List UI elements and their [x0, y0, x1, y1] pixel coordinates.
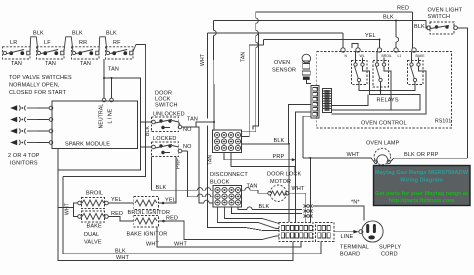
- wire switch to right edge: [457, 28, 467, 158]
- svg-text:SENSOR: SENSOR: [272, 68, 296, 74]
- svg-text:YEL: YEL: [365, 33, 376, 39]
- oven light switch: [414, 22, 457, 34]
- relay 1: [352, 52, 368, 85]
- svg-text:NO: NO: [183, 127, 192, 133]
- valve left bracket WHT: [58, 203, 78, 217]
- svg-text:2 OR 4 TOP: 2 OR 4 TOP: [8, 153, 40, 159]
- terminal neutral: [102, 98, 106, 102]
- oven light switch label: [428, 8, 463, 21]
- terminal T1: [341, 48, 348, 58]
- supply cord label: [379, 245, 401, 258]
- svg-text:BAKE: BAKE: [87, 224, 102, 230]
- wire from RF right to door lock area: [133, 45, 146, 123]
- relay 2: [373, 52, 389, 87]
- wire loop inner: [63, 122, 321, 254]
- svg-text:BLK: BLK: [274, 138, 285, 144]
- wire YEL right junction up: [158, 157, 176, 205]
- svg-text:L I NE: L I NE: [108, 108, 114, 123]
- wire BLK left of DLS: [141, 122, 152, 147]
- wire vertical x249 TAN: [241, 40, 264, 135]
- svg-text:*N*: *N*: [351, 200, 360, 206]
- ignitor 3: [10, 128, 53, 133]
- svg-text:LF: LF: [44, 40, 51, 46]
- terminal board box 2: [316, 223, 335, 242]
- svg-text:RED: RED: [166, 216, 178, 222]
- oven lamp: [374, 148, 390, 164]
- svg-text:NORMALLY OPEN,: NORMALLY OPEN,: [9, 83, 60, 89]
- switch LF: [37, 40, 65, 67]
- wire BLK lower block bottom to bundle: [232, 204, 303, 213]
- svg-text:TAN: TAN: [45, 61, 56, 67]
- svg-text:NO: NO: [183, 144, 192, 150]
- svg-text:BLK OR PRP: BLK OR PRP: [404, 152, 439, 158]
- oven control dashed box: [317, 52, 452, 129]
- bake valve coil: [78, 211, 109, 222]
- svg-text:TAN: TAN: [187, 117, 198, 123]
- wire T2 stub: [352, 44, 358, 48]
- broil valve coil: [78, 198, 109, 209]
- svg-text:TAN: TAN: [247, 184, 258, 190]
- svg-text:BLK: BLK: [383, 15, 394, 21]
- bake ignitor: [127, 216, 168, 238]
- switch RF: [106, 40, 134, 59]
- svg-text:WHT: WHT: [116, 255, 129, 261]
- svg-text:LR: LR: [10, 40, 17, 46]
- terminal T3: [377, 48, 391, 58]
- svg-text:BLK: BLK: [414, 24, 425, 30]
- svg-text:TAN: TAN: [11, 61, 22, 67]
- svg-text:TOP VALVE SWITCHES: TOP VALVE SWITCHES: [9, 75, 72, 81]
- svg-text:WHT: WHT: [146, 242, 159, 248]
- wire TAN from unlocked NO: [182, 117, 215, 128]
- supply cord plug: [359, 221, 383, 242]
- wire WHT lamp left: [303, 152, 374, 162]
- wire RED bus: [256, 6, 413, 49]
- svg-text:SUPPLY: SUPPLY: [379, 245, 401, 251]
- wire into lower block row1 with bumps: [152, 157, 213, 191]
- relay 3: [408, 52, 424, 85]
- svg-text:BLK: BLK: [33, 31, 44, 37]
- twisted wire bundle: [289, 157, 313, 222]
- spark module box: [52, 101, 138, 149]
- svg-text:DUAL: DUAL: [84, 232, 99, 238]
- wire vertical x258.5: [253, 33, 259, 130]
- wire T4 to BLK bus: [395, 20, 399, 48]
- svg-text:OVEN LIGHT: OVEN LIGHT: [428, 8, 463, 14]
- svg-text:SWITCH: SWITCH: [428, 14, 451, 20]
- svg-text:TAN: TAN: [108, 67, 119, 73]
- svg-text:TAN: TAN: [80, 61, 91, 67]
- sensor edge connector hatched: [323, 89, 332, 113]
- svg-text:L1: L1: [398, 54, 402, 58]
- svg-text:WHT: WHT: [292, 186, 305, 192]
- wire BLK link LR-LF: [30, 31, 44, 53]
- terminal board label: [340, 245, 369, 258]
- svg-text:CORD: CORD: [381, 252, 398, 258]
- svg-text:CLOSED FOR START: CLOSED FOR START: [9, 90, 67, 96]
- svg-text:PRP: PRP: [273, 154, 285, 160]
- svg-text:WHT: WHT: [65, 203, 71, 215]
- upper connector block: [213, 130, 242, 153]
- svg-text:BLK: BLK: [106, 31, 117, 37]
- wire neutral/line up to junction: [103, 67, 141, 123]
- locked switch box: [151, 142, 192, 157]
- svg-text:RED: RED: [397, 6, 409, 12]
- terminal board box 1: [279, 223, 313, 242]
- svg-text:RS101: RS101: [435, 119, 451, 125]
- svg-text:http://parts.fixitnow.com: http://parts.fixitnow.com: [389, 198, 455, 204]
- wire BLK OR PRP lamp right: [391, 152, 468, 162]
- wire mid from block col3 bottom to motor drop: [231, 153, 295, 172]
- svg-text:RELAYS: RELAYS: [377, 98, 399, 104]
- svg-text:LINE: LINE: [341, 234, 354, 240]
- disconnect block label: [210, 172, 248, 186]
- svg-text:BLK: BLK: [72, 31, 83, 37]
- terminal T2: [356, 48, 365, 58]
- label DUAL VALVE: [84, 232, 102, 246]
- wire WHT motor right: [289, 186, 306, 204]
- svg-text:BLK: BLK: [259, 204, 270, 210]
- door lock switch label: [155, 91, 178, 109]
- ignitor 1: [10, 105, 53, 110]
- terminal line: [110, 98, 114, 102]
- wire vertical x256 with bumps: [256, 12, 259, 130]
- wire BLK link RR-RF: [99, 31, 117, 53]
- wire WHT bottom bus: [146, 227, 301, 248]
- wire RED right junction down: [158, 216, 279, 240]
- svg-text:SPARK MODULE: SPARK MODULE: [65, 142, 110, 148]
- unlocked switch box: [151, 117, 192, 133]
- svg-text:NEUTRAL: NEUTRAL: [99, 104, 105, 129]
- switch RR: [72, 40, 100, 67]
- svg-text:BROIL: BROIL: [382, 54, 392, 58]
- svg-text:DISCONNECT: DISCONNECT: [210, 172, 248, 178]
- svg-text:Wiring Diagram: Wiring Diagram: [400, 178, 443, 184]
- wire lower block cols to terminal board diagonals: [218, 207, 280, 229]
- svg-text:DOOR LOCK: DOOR LOCK: [267, 172, 302, 178]
- oven sensor bulb: [302, 54, 311, 83]
- wire loop outer: [58, 147, 293, 261]
- terminal T4: [394, 48, 402, 58]
- svg-text:LOCKED: LOCKED: [153, 136, 177, 142]
- svg-text:WHT: WHT: [200, 54, 206, 66]
- wire LINE to plug: [334, 230, 359, 240]
- wire sensor drop 2: [296, 112, 311, 204]
- svg-text:WHT: WHT: [347, 152, 360, 158]
- wire BLK bus: [214, 15, 428, 28]
- wire TAN lower block row1 to door motor: [242, 184, 269, 194]
- wire upper block row2 to x249: [242, 135, 250, 137]
- sensor connector strip: [311, 86, 319, 119]
- wire vertical x207 WHT: [200, 33, 279, 231]
- svg-text:BAKE IGNITOR: BAKE IGNITOR: [127, 232, 168, 238]
- wire BLK link LF-RR: [64, 31, 83, 53]
- svg-text:BAKE: BAKE: [416, 54, 426, 58]
- svg-text:YEL: YEL: [165, 198, 176, 204]
- ignitor 2: [10, 117, 53, 122]
- svg-text:BLK: BLK: [115, 249, 126, 255]
- lower disconnect block: [213, 186, 242, 208]
- wire TAN from RF bottom down to spark module junction: [103, 59, 105, 78]
- svg-text:VALVE: VALVE: [84, 240, 102, 246]
- wire *N* to supply cord: [313, 200, 364, 221]
- oven sensor label: [272, 60, 296, 74]
- wire PRP from locked NO down: [176, 151, 188, 169]
- wire upper block row1 to x255.7: [242, 130, 256, 132]
- svg-text:WHT: WHT: [174, 242, 187, 248]
- svg-text:BLOCK: BLOCK: [210, 180, 230, 186]
- broil ignitor: [128, 197, 171, 217]
- wire PRP from block col2 bottom to right: [224, 153, 296, 162]
- wire sensor drop 1: [288, 105, 311, 204]
- door lock motor: [268, 185, 289, 201]
- switch LR: [3, 40, 31, 67]
- wires from edge connector to relays: [332, 66, 427, 114]
- wire into lower block row2 from WHT vertical: [188, 151, 214, 197]
- svg-text:OVEN CONTROL: OVEN CONTROL: [361, 121, 407, 127]
- svg-text:TAN: TAN: [208, 155, 214, 165]
- wire sensor drop 3: [303, 116, 311, 158]
- svg-text:MOTOR: MOTOR: [270, 179, 291, 185]
- ignitors note: [8, 153, 40, 167]
- wire bus 3: [207, 33, 343, 48]
- svg-text:RF: RF: [113, 40, 121, 46]
- note text: [9, 75, 72, 96]
- door lock motor label: [267, 172, 302, 186]
- svg-text:BLK: BLK: [156, 185, 167, 191]
- svg-text:Get parts for your Maytag rang: Get parts for your Maytag range at: [375, 191, 468, 197]
- wire vertical x214: [214, 21, 217, 130]
- wires under relays: [359, 66, 420, 104]
- svg-text:SWITCH: SWITCH: [155, 103, 178, 109]
- terminal T5: [412, 48, 425, 58]
- svg-text:OVEN LAMP: OVEN LAMP: [366, 141, 400, 147]
- svg-text:BOARD: BOARD: [340, 252, 360, 258]
- wire YEL broil to ignitor: [108, 197, 133, 203]
- svg-text:RR: RR: [79, 40, 87, 46]
- info box: [374, 166, 471, 206]
- svg-text:YEL: YEL: [111, 197, 122, 203]
- svg-text:RED: RED: [111, 211, 123, 217]
- wire YEL bus: [263, 33, 380, 48]
- svg-text:TERMINAL: TERMINAL: [340, 245, 369, 251]
- svg-text:IGNITORS: IGNITORS: [10, 161, 38, 167]
- svg-text:TAN: TAN: [241, 52, 247, 62]
- ignitor 4: [10, 140, 53, 145]
- svg-text:WL: WL: [360, 54, 365, 58]
- wire RED bake to ignitor: [108, 211, 133, 221]
- wire into lower block row3: [196, 127, 213, 203]
- svg-text:BROIL: BROIL: [86, 191, 103, 197]
- svg-text:UNLOCKED: UNLOCKED: [153, 112, 185, 118]
- wire BLK from block row3 to sensor drop: [242, 138, 290, 145]
- svg-text:Maytag Gas Range MGR5750ADW: Maytag Gas Range MGR5750ADW: [375, 170, 469, 176]
- svg-text:OVEN: OVEN: [274, 60, 290, 66]
